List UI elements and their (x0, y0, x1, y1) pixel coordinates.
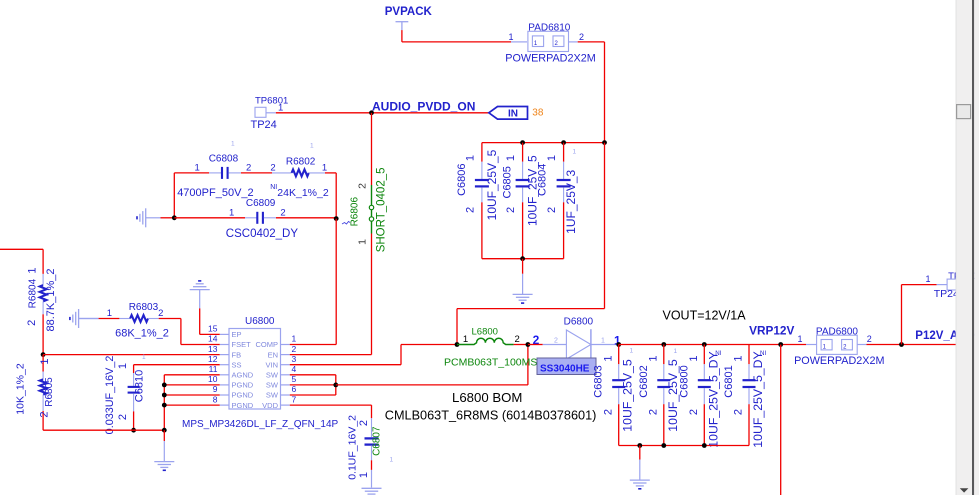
svg-text:1: 1 (117, 363, 129, 369)
node bottom rail ground junction (162, 428, 167, 433)
svg-text:1UF_25V_3: 1UF_25V_3 (564, 169, 578, 233)
node input bottom junction (520, 256, 525, 261)
svg-text:R6802: R6802 (286, 156, 316, 167)
svg-text:NI: NI (715, 350, 721, 357)
svg-text:1: 1 (292, 334, 297, 344)
wire PAD6810 pin2 down to input cap rail (578, 41, 605, 43)
svg-text:VIN: VIN (265, 360, 278, 369)
wire PGND row 8 (164, 404, 220, 406)
resistor R6804 (42, 249, 44, 274)
svg-text:PAD6810: PAD6810 (528, 23, 571, 34)
svg-text:2: 2 (270, 163, 275, 174)
svg-text:0.1UF_16V_2: 0.1UF_16V_2 (347, 415, 359, 480)
node diode anode junction (526, 342, 531, 347)
node L6800 pin1 junction (455, 342, 460, 347)
svg-text:1: 1 (39, 358, 51, 364)
svg-text:1: 1 (27, 267, 39, 273)
wire input cap bottom rail (482, 258, 564, 260)
svg-text:1: 1 (797, 334, 802, 344)
svg-text:PGND: PGND (232, 401, 254, 410)
svg-text:1: 1 (688, 356, 700, 362)
svg-text:L6800: L6800 (472, 327, 498, 338)
wire SW pin4 (290, 374, 336, 376)
wire C6808 to R6802 (241, 172, 272, 174)
wire RC top branch (174, 172, 209, 174)
svg-text:2: 2 (280, 207, 285, 218)
svg-text:1: 1 (322, 163, 327, 174)
wire VIN (290, 364, 401, 366)
svg-text:1: 1 (195, 163, 200, 174)
svg-text:COMP: COMP (256, 340, 279, 349)
svg-text:D6800: D6800 (564, 317, 594, 328)
svg-text:VRP12V: VRP12V (749, 324, 794, 338)
svg-text:FSET: FSET (232, 340, 252, 349)
svg-text:1: 1 (925, 274, 930, 284)
svg-text:2: 2 (505, 207, 517, 213)
svg-text:1: 1 (229, 207, 234, 218)
svg-text:FB: FB (232, 350, 242, 359)
svg-text:15: 15 (208, 324, 218, 334)
svg-text:CSC0402_DY: CSC0402_DY (226, 228, 299, 240)
node SW junction (333, 383, 338, 388)
capacitor C6802 (661, 342, 666, 347)
svg-text:9: 9 (213, 384, 218, 394)
svg-text:10UF_25V_5_DY: 10UF_25V_5_DY (751, 351, 765, 447)
wire SW pin6 (290, 394, 336, 396)
svg-text:1: 1 (602, 356, 614, 362)
resistor R6803 (79, 318, 99, 320)
wire C6807 to ground (371, 460, 373, 470)
capacitor C6806 (481, 143, 483, 162)
svg-text:1: 1 (630, 347, 634, 354)
svg-text:C6810: C6810 (134, 370, 146, 402)
svg-text:AUDIO_PVDD_ON: AUDIO_PVDD_ON (372, 100, 475, 114)
svg-text:2: 2 (117, 414, 129, 420)
svg-text:10UF_25V_5_DY: 10UF_25V_5_DY (706, 351, 720, 447)
wire RC bottom branch (174, 217, 245, 219)
svg-text:2: 2 (546, 207, 558, 213)
svg-text:C6807: C6807 (372, 426, 383, 456)
svg-text:2: 2 (39, 411, 51, 417)
svg-text:1: 1 (573, 149, 577, 156)
wire FB row (43, 354, 220, 356)
wire input cap top rail (482, 142, 605, 144)
node COMP junction (334, 216, 339, 221)
svg-text:SW: SW (266, 381, 279, 390)
ground output caps (639, 446, 641, 460)
wire AUDIO_PVDD_ON (276, 112, 489, 114)
svg-text:1: 1 (546, 155, 558, 161)
svg-text:11: 11 (209, 364, 218, 374)
svg-text:PGND: PGND (232, 391, 254, 400)
svg-text:L6800 BOM: L6800 BOM (452, 390, 522, 405)
svg-text:R6805: R6805 (44, 377, 55, 407)
wire VOUT rail (619, 344, 806, 346)
svg-text:VOUT=12V/1A: VOUT=12V/1A (663, 309, 747, 323)
svg-text:PGND: PGND (232, 381, 254, 390)
svg-text:R6806: R6806 (349, 197, 360, 227)
svg-text:1: 1 (463, 334, 468, 345)
wire EN to R6806 (290, 354, 372, 356)
svg-text:2: 2 (358, 420, 370, 426)
svg-text:AGND: AGND (232, 371, 254, 380)
wire COMP to RC junction (290, 344, 336, 346)
svg-text:1: 1 (505, 155, 517, 161)
svg-text:2: 2 (465, 207, 477, 213)
wire AGND row (164, 374, 220, 376)
capacitor C6800 (702, 342, 707, 347)
svg-text:1: 1 (310, 143, 314, 150)
svg-text:1: 1 (358, 472, 370, 478)
wire AGND/PGND vertical (163, 375, 165, 430)
svg-text:EN: EN (268, 350, 278, 359)
node input rail junction right (602, 140, 607, 145)
svg-text:5: 5 (292, 374, 297, 384)
svg-text:VDD: VDD (262, 401, 278, 410)
svg-text:U6800: U6800 (245, 316, 275, 327)
svg-text:C6803: C6803 (593, 365, 605, 397)
svg-text:PAD6800: PAD6800 (816, 327, 859, 338)
wire SS row (134, 364, 220, 366)
ground EP (199, 290, 201, 309)
svg-text:1: 1 (390, 457, 394, 464)
port IN (off-page connector) (489, 107, 528, 120)
wire EP ground (199, 308, 201, 334)
node input rail junction C6804 (561, 140, 566, 145)
node FB junction (41, 352, 46, 357)
svg-text:MPS_MP3426DL_LF_Z_QFN_14P: MPS_MP3426DL_LF_Z_QFN_14P (182, 419, 339, 430)
node RC bottom left junction (172, 215, 177, 220)
svg-text:C6804: C6804 (537, 164, 549, 196)
wire PGND row 10 (164, 384, 220, 386)
svg-text:POWERPAD2X2M: POWERPAD2X2M (794, 355, 884, 367)
svg-text:C6809: C6809 (246, 198, 276, 209)
node diode cathode junction (616, 342, 621, 347)
svg-text:4700PF_50V_2: 4700PF_50V_2 (177, 187, 253, 199)
svg-text:C6808: C6808 (209, 154, 239, 165)
node C6810 bottom junction (131, 428, 136, 433)
svg-text:2: 2 (246, 163, 251, 174)
svg-text:SW: SW (266, 371, 279, 380)
capacitor C6803 (618, 345, 620, 365)
svg-text:EP: EP (232, 330, 242, 339)
svg-text:CMLB063T_6R8MS (6014B0378601): CMLB063T_6R8MS (6014B0378601) (385, 408, 597, 422)
ground U6800 rail (163, 430, 165, 441)
svg-text:SS3040HE: SS3040HE (540, 364, 590, 375)
wire RC network left vertical (173, 173, 175, 218)
ground RC network (146, 217, 161, 219)
wire left feed to R6804 (0, 248, 43, 250)
node input rail junction C6805 (520, 140, 525, 145)
svg-text:13: 13 (208, 344, 218, 354)
svg-text:2: 2 (554, 338, 558, 345)
wire VRP12V down (780, 345, 782, 495)
capacitor C6804 (563, 143, 565, 162)
svg-text:C6806: C6806 (456, 163, 468, 195)
scrollbar (956, 0, 972, 495)
svg-text:2: 2 (602, 409, 614, 415)
svg-text:1: 1 (231, 141, 235, 148)
svg-text:NI: NI (270, 184, 277, 191)
svg-text:10: 10 (208, 374, 218, 384)
selection highlight SS3040HE (537, 358, 596, 375)
wire output cap bottom rail (619, 445, 749, 447)
capacitor C6805 (522, 143, 524, 162)
svg-text:68K_1%_2: 68K_1%_2 (115, 328, 169, 340)
svg-text:2: 2 (867, 334, 872, 344)
svg-text:8: 8 (213, 394, 218, 404)
svg-text:1: 1 (674, 348, 678, 355)
svg-text:R6803: R6803 (129, 302, 159, 313)
svg-text:1: 1 (278, 102, 283, 113)
svg-text:0.033UF_16V_2: 0.033UF_16V_2 (104, 356, 116, 435)
wire L6800 to D6800 (514, 344, 528, 346)
wire P12V to TP6800 (901, 285, 903, 345)
svg-text:1: 1 (648, 356, 660, 362)
svg-text:C6801: C6801 (723, 365, 735, 397)
svg-text:1: 1 (142, 354, 146, 361)
svg-text:SW: SW (266, 391, 279, 400)
wire SW node to diode junction (336, 384, 528, 386)
wire C6809 to COMP vertical (276, 217, 336, 219)
wire R6806 to EN (371, 234, 373, 355)
svg-text:2: 2 (648, 409, 660, 415)
svg-text:R6804: R6804 (28, 278, 39, 308)
wire AUDIO_PVDD down to R6806 (371, 113, 373, 185)
svg-text:7: 7 (292, 394, 297, 404)
capacitor C6810 (133, 365, 135, 373)
wire SW pin5 (290, 384, 336, 386)
svg-text:10UF_25V_5: 10UF_25V_5 (621, 359, 635, 432)
wire VDD (290, 404, 372, 406)
node AUDIO_PVDD_ON junction (369, 110, 374, 115)
svg-text:10K_1%_2: 10K_1%_2 (15, 363, 27, 415)
svg-text:SS: SS (232, 360, 242, 369)
svg-text:PCMB063T_100MS: PCMB063T_100MS (444, 356, 537, 368)
wire R6802 to right vertical (325, 172, 336, 174)
svg-text:IN: IN (508, 108, 518, 119)
svg-text:2: 2 (357, 183, 369, 189)
capacitor C6807 (371, 418, 373, 437)
svg-text:2: 2 (292, 344, 297, 354)
svg-text:10UF_25V_5: 10UF_25V_5 (485, 149, 499, 220)
node output gnd junction (637, 443, 642, 448)
capacitor C6801 (748, 345, 750, 365)
svg-text:2: 2 (688, 409, 700, 415)
wire VIN feed from input rail (456, 309, 458, 345)
svg-text:2: 2 (579, 32, 584, 42)
svg-text:24K_1%_2: 24K_1%_2 (277, 187, 329, 199)
wire bottom rail (43, 429, 164, 431)
svg-text:38: 38 (532, 107, 544, 118)
wire PVPACK to PAD6810 pin1 (401, 30, 403, 42)
svg-text:2: 2 (158, 308, 163, 319)
wire R6803 to FSET (159, 318, 181, 320)
svg-text:1: 1 (601, 338, 605, 345)
ground input caps (522, 259, 524, 274)
svg-text:2: 2 (515, 334, 520, 345)
svg-text:C6805: C6805 (501, 166, 513, 198)
ground C6807 (371, 470, 373, 488)
svg-text:1: 1 (107, 308, 112, 319)
svg-text:TP24: TP24 (251, 119, 277, 131)
svg-text:1: 1 (508, 32, 513, 42)
svg-text:88.7K_1%_2: 88.7K_1%_2 (45, 269, 57, 332)
node VRP12V junction (778, 342, 783, 347)
svg-text:POWERPAD2X2M: POWERPAD2X2M (505, 52, 595, 64)
svg-text:4: 4 (292, 364, 297, 374)
svg-text:6: 6 (292, 384, 297, 394)
svg-text:SHORT_0402_5: SHORT_0402_5 (376, 167, 388, 252)
svg-text:1: 1 (465, 155, 477, 161)
svg-text:C6800: C6800 (678, 365, 690, 397)
svg-text:2: 2 (26, 320, 38, 326)
svg-text:1: 1 (733, 356, 745, 362)
svg-text:14: 14 (208, 334, 218, 344)
svg-text:PVPACK: PVPACK (385, 6, 433, 18)
wire PAD6800 pin2 to P12V (867, 344, 957, 346)
svg-text:3: 3 (292, 354, 297, 364)
svg-text:1: 1 (357, 239, 369, 245)
node P12V junction (899, 342, 904, 347)
resistor R6805 (42, 355, 44, 372)
svg-text:NI: NI (760, 350, 766, 357)
svg-text:C6802: C6802 (638, 365, 650, 397)
wire PGND row 9 (164, 394, 220, 396)
svg-text:2: 2 (733, 409, 745, 415)
testpoint TP6800 (937, 284, 948, 286)
svg-text:12: 12 (208, 354, 218, 364)
